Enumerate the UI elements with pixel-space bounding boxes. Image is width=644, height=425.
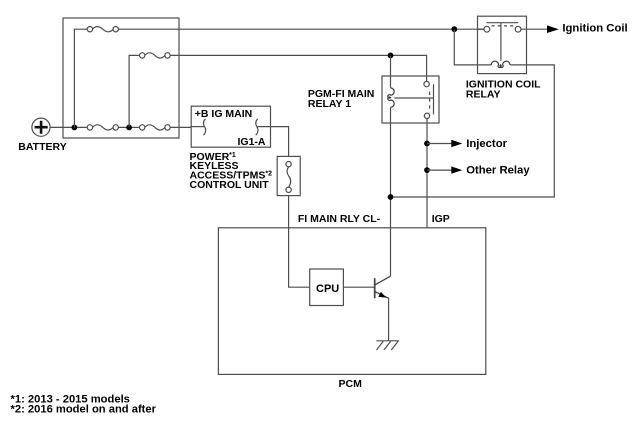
node: junction dot ignition relay coil branch [451,26,457,32]
svg-text:Injector: Injector [466,138,507,150]
wire IG1-A out to keyless fuse [257,127,288,157]
svg-text:Other Relay: Other Relay [466,164,530,176]
svg-text:RELAY: RELAY [466,88,501,100]
relay contact terminal right [515,26,521,32]
ignition coil relay box [478,16,527,73]
transistor emitter arrowhead [378,292,386,298]
svg-text:PCM: PCM [339,378,363,390]
svg-text:FI MAIN RLY CL-: FI MAIN RLY CL- [298,213,381,225]
relay coil L2 (horizontal) [491,61,510,67]
relay armature link line [394,97,433,99]
wire relay coil bottom down [390,107,392,276]
fuse F1 (top row) [87,27,118,32]
wire junction down to coil left terminal [454,29,491,65]
wire to other relay arrow [427,169,452,171]
node: junction dot FI MAIN RLY CL- branch [388,194,394,200]
wire right contact to arrow [521,28,548,30]
svg-text:RELAY 1: RELAY 1 [308,98,351,110]
svg-text:CONTROL UNIT: CONTROL UNIT [190,179,270,191]
CPU box [310,269,344,306]
relay contact bar [433,84,435,114]
node: junction dot injector branch [424,141,430,147]
ground G1 [376,341,399,350]
wire inside box from left edge [191,126,204,128]
arrow to Injector [451,140,462,147]
relay contact terminal left [484,26,490,32]
wire battery to fuse box row [50,126,192,128]
svg-text:IG1-A: IG1-A [238,136,266,148]
fuse F3 (bottom-left in box) [87,125,118,130]
svg-text:BATTERY: BATTERY [18,141,66,153]
fuse F4 (bottom-right in box) [140,125,171,130]
keyless box (+B IG MAIN) [191,106,270,147]
relay contact dashed line [429,92,431,113]
label POWER KEYLESS ACCESS/TPMS CONTROL UNIT [190,151,273,191]
fuse F5 symbol [286,162,291,193]
wire CPU to transistor base [343,286,375,288]
relay armature link line vertical [500,23,502,61]
wire: vertical branch to fuse F1 [74,29,87,127]
fuse F5 (keyless control unit fuse) box [277,156,300,195]
transistor Q1 emitter [375,292,389,299]
svg-text:+B IG MAIN: +B IG MAIN [195,108,252,120]
wire into left contact [478,28,485,30]
wire fuse F1 to ignition coil relay [118,28,484,30]
fuse F2 (second row) [140,53,171,58]
relay contact terminal top [424,81,429,86]
wire relay contact bottom down (IGP) [426,119,428,229]
relay contact bar (horizontal) [486,22,518,24]
connector squiggle left (+B pin) [203,119,205,135]
connector squiggle right (IG1-A pin) [256,119,258,135]
arrow to Ignition Coil [547,25,559,33]
wire: vertical branch to fuse F2 [129,55,140,127]
PGM-FI main relay 1 box [382,76,439,123]
svg-text:IGP: IGP [432,213,450,225]
svg-text:Ignition Coil: Ignition Coil [562,23,627,35]
node: junction dot battery/fuse2 branch [126,125,132,131]
svg-text:*2: 2016 model on and after: *2: 2016 model on and after [11,403,157,415]
wire emitter to ground [388,298,390,341]
fuse box (under-hood fuse/relay box) [63,18,179,138]
arrow to Other Relay [451,166,462,173]
wire coil feed down into relay [390,55,392,87]
node: junction dot other relay branch [424,167,430,173]
svg-text:CPU: CPU [316,283,339,295]
relay contact terminal bottom [424,113,429,118]
wire coil right terminal to vertical drop [393,65,554,197]
battery B1 [32,118,50,136]
PCM box [218,228,485,375]
transistor Q1 base bar [374,278,376,298]
relay coil L1 (vertical) [388,88,394,107]
wire to injector arrow [427,143,452,145]
wire fuse F2 to PGM-FI main relay [170,55,427,81]
node: junction dot PGM-FI relay coil branch [388,53,394,59]
wire keyless fuse down to CPU [289,196,310,288]
transistor Q1 collector [375,276,391,285]
node: junction dot battery/fuse1 branch [72,125,78,131]
relay contact dashed line [492,25,515,27]
